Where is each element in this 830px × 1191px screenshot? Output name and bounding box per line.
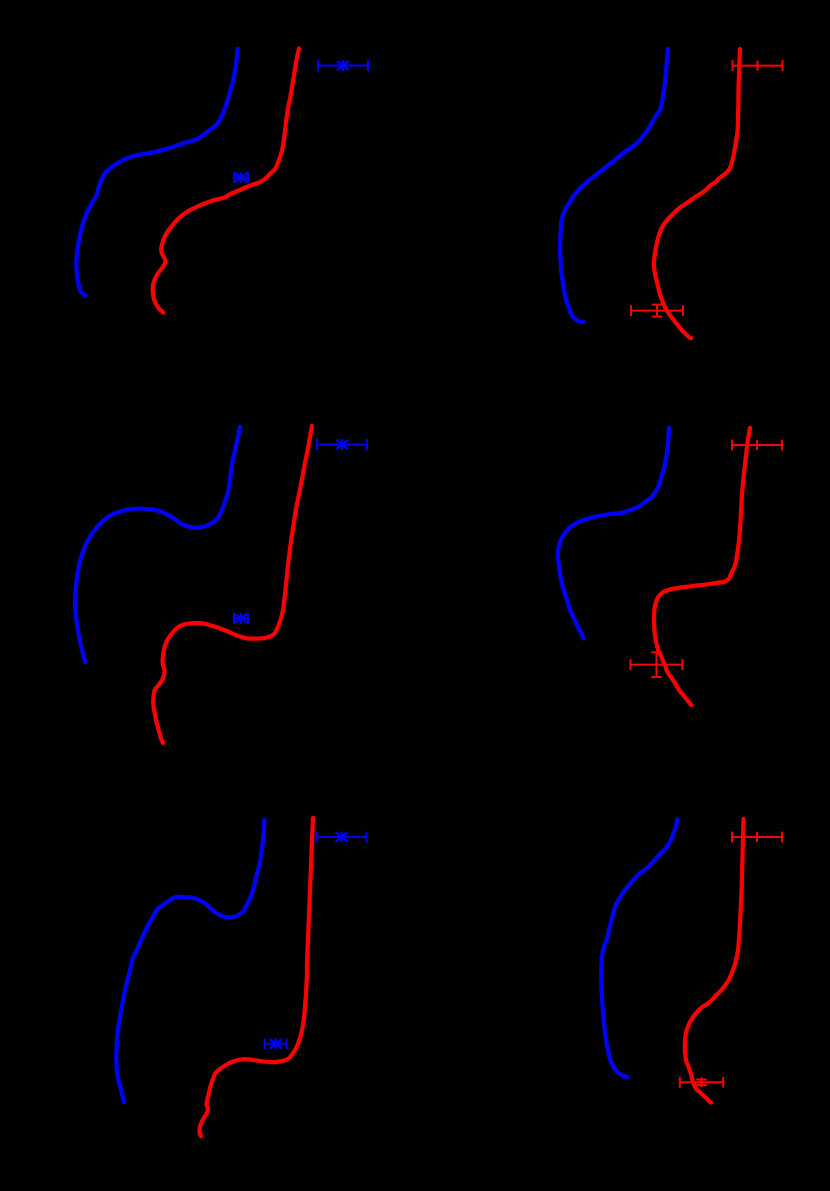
panel 5 blue curve xyxy=(116,820,264,1102)
panel 6 blue curve xyxy=(601,819,677,1077)
panel 2 red legend error bar with tick marker xyxy=(733,60,783,71)
panel 5 blue data point: asterisk with x error bar xyxy=(265,1038,287,1049)
panel 4 red data point with x and y error bars xyxy=(631,652,683,677)
panel 3 blue legend error bar with asterisk marker xyxy=(317,439,367,450)
panel 4 red curve xyxy=(654,428,750,705)
panel 1 blue curve xyxy=(76,49,237,296)
panel 2 blue curve xyxy=(560,49,668,322)
panel 6 red data point with x and y error bars xyxy=(680,1077,723,1088)
panel 6 red legend error bar with tick marker xyxy=(732,832,782,843)
panel 3 red curve xyxy=(153,426,312,743)
panel 4 red legend error bar with tick marker xyxy=(732,440,782,451)
panel 3 blue curve xyxy=(75,427,240,662)
panel 3 blue data point: asterisk with x error bar xyxy=(234,613,248,624)
panel 5 red curve xyxy=(200,818,313,1136)
panel 2 red curve xyxy=(654,49,740,338)
panel 6 red curve xyxy=(685,819,744,1103)
panel 1 red curve xyxy=(153,49,299,313)
panel 4 blue curve xyxy=(558,428,669,638)
panel 5 blue legend error bar with asterisk marker xyxy=(317,832,367,843)
panel 2 red data point with x and y error bars xyxy=(631,305,683,317)
panel 1 blue data point: asterisk with x error bar xyxy=(234,172,248,183)
panel 1 blue legend error bar with asterisk marker xyxy=(318,60,368,71)
